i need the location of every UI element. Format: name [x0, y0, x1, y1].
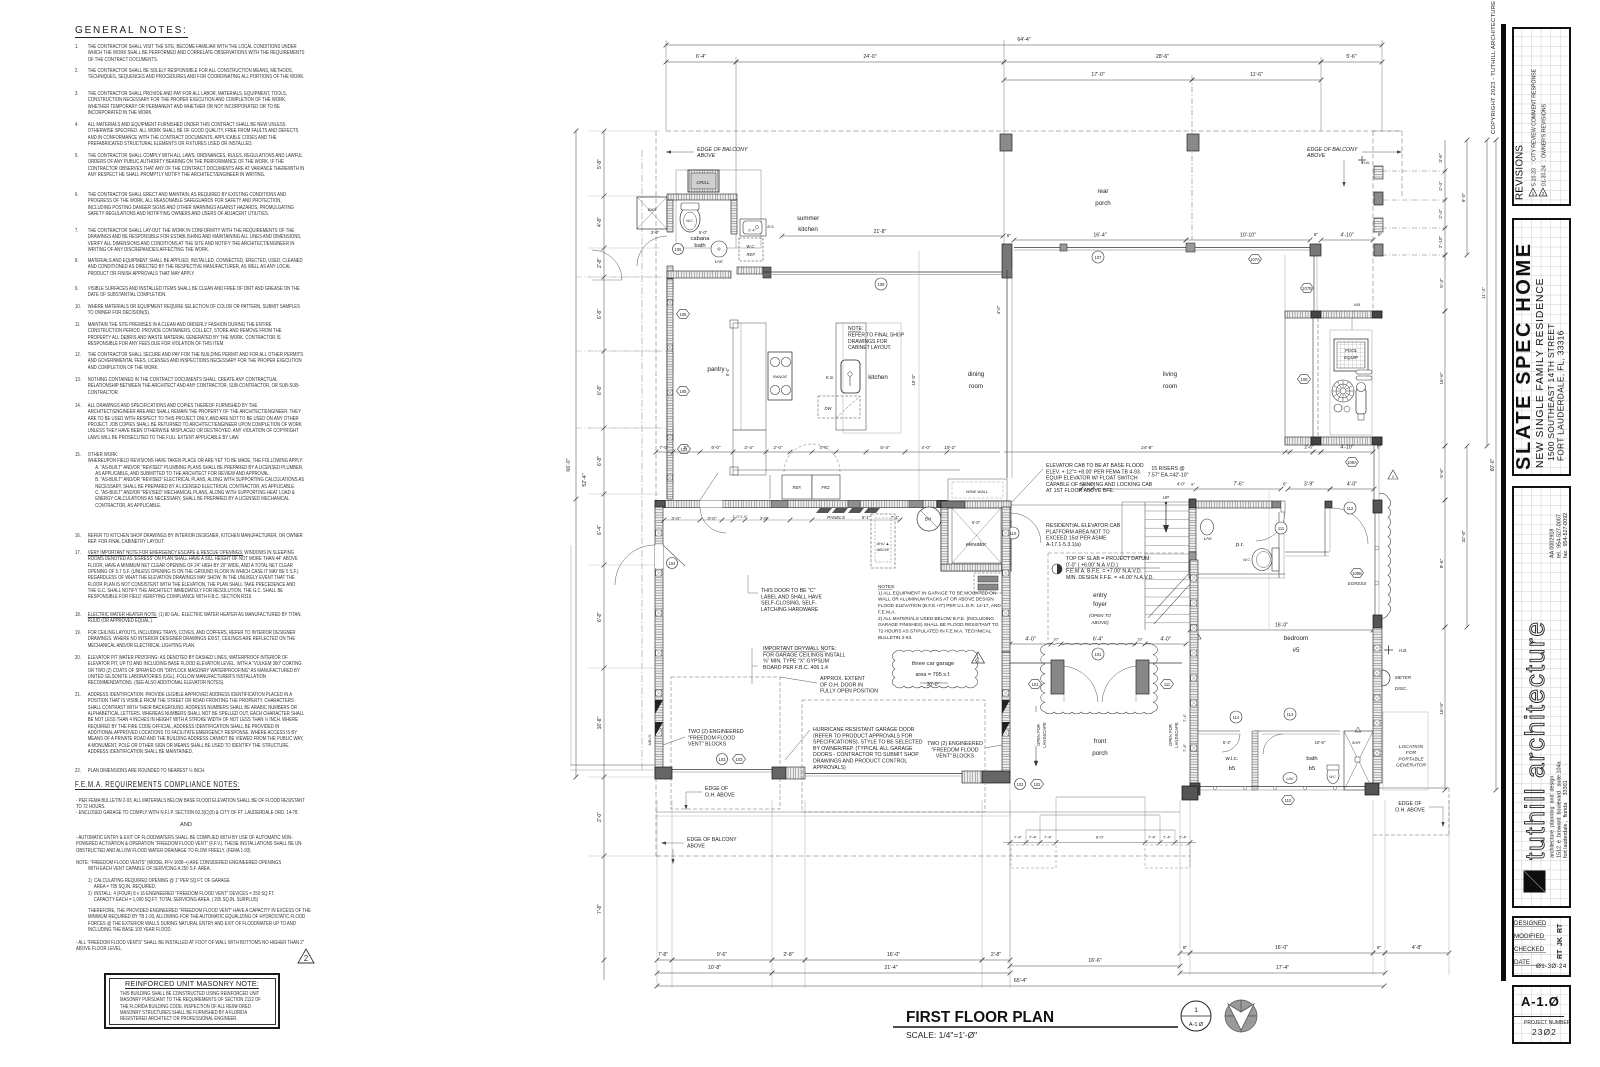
svg-text:LATCHING HARDWARE: LATCHING HARDWARE — [761, 607, 819, 613]
svg-text:DRAWINGS FOR: DRAWINGS FOR — [848, 339, 888, 345]
svg-text:AHU ▲: AHU ▲ — [876, 542, 890, 546]
svg-text:2'-8": 2'-8" — [597, 258, 603, 268]
svg-text:GENERATOR: GENERATOR — [1396, 763, 1426, 769]
svg-text:10'-8": 10'-8" — [708, 965, 721, 971]
svg-text:THIS DOOR TO BE "C": THIS DOOR TO BE "C" — [761, 588, 816, 594]
svg-text:BULLETIN 2-93.: BULLETIN 2-93. — [878, 635, 912, 640]
svg-text:tuthill architecture: tuthill architecture — [1520, 620, 1550, 860]
svg-text:METER: METER — [1395, 675, 1412, 680]
svg-text:16'-0": 16'-0" — [1275, 945, 1288, 951]
svg-text:⅝" MIN. TYPE "X" GYPSUM: ⅝" MIN. TYPE "X" GYPSUM — [763, 659, 829, 665]
svg-text:2'-4": 2'-4" — [1438, 209, 1444, 219]
svg-text:DRAWINGS AND PRODUCT CONTROL: DRAWINGS AND PRODUCT CONTROL — [813, 759, 907, 765]
svg-text:TWO (2) ENGINEERED: TWO (2) ENGINEERED — [927, 741, 983, 747]
svg-text:SCALE: 1/4"=1'-Ø": SCALE: 1/4"=1'-Ø" — [906, 1030, 977, 1040]
svg-text:BAR: BAR — [648, 207, 656, 212]
svg-text:11'-4": 11'-4" — [1481, 287, 1487, 299]
svg-text:6'-8": 6'-8" — [597, 309, 603, 319]
svg-text:EQUIP ELEVATOR W/ FLOAT SWITCH: EQUIP ELEVATOR W/ FLOAT SWITCH — [1046, 476, 1138, 482]
svg-text:7'-4": 7'-4" — [1014, 835, 1023, 840]
svg-text:5'-3": 5'-3" — [1439, 278, 1445, 288]
svg-text:FLOOD ELEVATION (B.F.E.+0") PE: FLOOD ELEVATION (B.F.E.+0") PER U.L.D.R.… — [878, 603, 1001, 608]
svg-text:109A: 109A — [1347, 460, 1357, 465]
svg-text:5'-2": 5'-2" — [1223, 740, 1232, 745]
svg-text:room: room — [969, 383, 983, 390]
svg-text:10'-10": 10'-10" — [1240, 233, 1256, 239]
svg-text:EDGE OF BALCONY: EDGE OF BALCONY — [697, 147, 748, 153]
svg-text:UP: UP — [1163, 495, 1169, 500]
svg-text:OPEN FOR: OPEN FOR — [1036, 724, 1041, 746]
svg-text:ELEVATOR CAB TO BE AT BASE FLO: ELEVATOR CAB TO BE AT BASE FLOOD — [1046, 463, 1144, 469]
svg-text:W.C.: W.C. — [686, 219, 694, 223]
svg-text:8": 8" — [684, 445, 689, 450]
svg-text:F.E.M.A. B.F.E. = +7.00' N.A.: F.E.M.A. B.F.E. = +7.00' N.A.V.D. — [1066, 569, 1142, 575]
svg-text:8": 8" — [1378, 232, 1383, 237]
svg-text:A-1.Ø: A-1.Ø — [1521, 994, 1560, 1009]
svg-text:SPECIFICATIONS). STYLE TO BE S: SPECIFICATIONS). STYLE TO BE SELECTED — [813, 740, 923, 746]
svg-text:23Ø2: 23Ø2 — [1532, 1027, 1557, 1037]
svg-text:2'-8": 2'-8" — [991, 952, 1001, 958]
svg-text:REF.: REF. — [793, 485, 802, 490]
svg-text:108: 108 — [1301, 377, 1309, 382]
svg-text:w.i.c.: w.i.c. — [1225, 756, 1239, 762]
svg-text:SELF-CLOSING, SELF-: SELF-CLOSING, SELF- — [761, 601, 817, 607]
svg-text:4'-0": 4'-0" — [996, 305, 1001, 314]
svg-text:BOARD PER F.B.C. 406.1.4: BOARD PER F.B.C. 406.1.4 — [763, 665, 828, 671]
svg-text:dining: dining — [968, 371, 985, 378]
svg-text:4'-0": 4'-0" — [921, 445, 931, 450]
svg-text:living: living — [1163, 371, 1178, 378]
svg-text:5'-6": 5'-6" — [1346, 54, 1356, 60]
svg-text:ABOVE: ABOVE — [875, 548, 890, 552]
svg-text:bedroom: bedroom — [1284, 635, 1308, 642]
svg-text:HURRICANE RESISTANT GARAGE DOO: HURRICANE RESISTANT GARAGE DOOR — [813, 727, 915, 733]
svg-text:52'-4": 52'-4" — [582, 473, 588, 486]
svg-text:2'-10": 2'-10" — [1438, 236, 1444, 249]
svg-text:101: 101 — [1032, 682, 1040, 687]
svg-text:b5: b5 — [1309, 766, 1315, 772]
svg-text:LABEL AND SHALL HAVE: LABEL AND SHALL HAVE — [761, 594, 822, 600]
svg-text:summer: summer — [797, 215, 819, 222]
svg-text:CAPABLE OF SENDING AND LOCKING: CAPABLE OF SENDING AND LOCKING CAB — [1046, 482, 1153, 488]
svg-text:LAV.: LAV. — [1204, 536, 1213, 541]
svg-text:APPROX. EXTENT: APPROX. EXTENT — [820, 676, 866, 682]
svg-text:2'-0": 2'-0" — [597, 812, 603, 822]
svg-text:4'-8": 4'-8" — [597, 217, 603, 227]
svg-text:"FREEDOM FLOOD: "FREEDOM FLOOD — [688, 735, 735, 741]
svg-text:EGRESS: EGRESS — [1348, 581, 1366, 586]
svg-text:2'-0": 2'-0" — [773, 445, 783, 450]
svg-text:5'-6": 5'-6" — [1439, 468, 1445, 478]
svg-text:VENT" BLOCKS: VENT" BLOCKS — [688, 742, 727, 748]
svg-text:ABOVE: ABOVE — [687, 843, 705, 849]
svg-text:cabana: cabana — [690, 236, 710, 242]
svg-text:17'-0": 17'-0" — [1091, 72, 1104, 78]
svg-text:8": 8" — [1314, 232, 1319, 237]
svg-text:b5: b5 — [1229, 766, 1235, 772]
svg-text:AT 1ST FLOOR ABOVE BFE.: AT 1ST FLOOR ABOVE BFE. — [1046, 488, 1114, 494]
svg-text:2: 2 — [304, 954, 309, 963]
svg-text:W.C.: W.C. — [1243, 558, 1251, 562]
svg-text:2: 2 — [977, 658, 980, 664]
svg-text:WINE WALL: WINE WALL — [966, 489, 988, 494]
svg-text:GRILL: GRILL — [696, 180, 710, 185]
svg-text:1500 SOUTHEAST 14TH STREET: 1500 SOUTHEAST 14TH STREET — [1547, 323, 1556, 461]
svg-text:W.C.: W.C. — [1329, 775, 1336, 779]
svg-text:72 HOURS AS STIPULATED IN F.E.: 72 HOURS AS STIPULATED IN F.E.M.A. TECHN… — [878, 628, 992, 633]
svg-text:NOTES:: NOTES: — [878, 584, 895, 589]
svg-text:pantry: pantry — [707, 366, 725, 373]
svg-text:#5: #5 — [1293, 647, 1300, 654]
svg-text:21'-8": 21'-8" — [874, 229, 887, 235]
svg-text:21'-4": 21'-4" — [884, 965, 897, 971]
svg-text:DW: DW — [825, 406, 833, 411]
svg-text:111: 111 — [1278, 526, 1285, 531]
svg-text:porch: porch — [1095, 200, 1111, 207]
svg-text:LAV.: LAV. — [1286, 777, 1293, 781]
svg-text:107A: 107A — [1250, 257, 1260, 262]
svg-text:bath: bath — [1306, 756, 1317, 762]
svg-text:K.S.: K.S. — [826, 375, 834, 380]
svg-text:5'-4": 5'-4" — [725, 367, 730, 376]
svg-text:10'-2": 10'-2" — [944, 445, 956, 450]
svg-text:(REFER TO PRODUCT APPROVALS FO: (REFER TO PRODUCT APPROVALS FOR — [813, 733, 913, 739]
svg-text:9'-6": 9'-6" — [1439, 558, 1445, 568]
svg-text:7'-0": 7'-0" — [659, 445, 669, 450]
svg-text:110: 110 — [1010, 531, 1017, 536]
svg-text:foyer: foyer — [1093, 601, 1107, 608]
svg-text:front: front — [1094, 738, 1107, 745]
svg-text:8": 8" — [1377, 945, 1382, 951]
svg-text:LOCATION: LOCATION — [1399, 744, 1424, 750]
svg-text:FULLY OPEN POSITION: FULLY OPEN POSITION — [820, 689, 878, 695]
svg-text:LANDSCAPE: LANDSCAPE — [1042, 722, 1047, 748]
svg-text:APPROVALS): APPROVALS) — [813, 765, 846, 771]
svg-text:15 RISERS @: 15 RISERS @ — [1151, 466, 1184, 472]
svg-text:111: 111 — [1164, 682, 1171, 687]
svg-text:EQUIP: EQUIP — [1344, 355, 1358, 360]
svg-text:VENT" BLOCKS: VENT" BLOCKS — [936, 754, 975, 760]
svg-text:6'-4": 6'-4" — [1093, 637, 1103, 643]
svg-text:PANELS: PANELS — [827, 515, 846, 520]
svg-text:7'-4": 7'-4" — [1182, 743, 1187, 752]
svg-text:10'-0": 10'-0" — [911, 374, 916, 386]
svg-text:TOP OF SLAB = PROJECT DATUM:: TOP OF SLAB = PROJECT DATUM: — [1066, 556, 1151, 562]
svg-text:65'-4": 65'-4" — [1014, 978, 1027, 984]
svg-text:1: 1 — [1194, 1007, 1198, 1014]
svg-text:107B: 107B — [1302, 286, 1312, 291]
svg-text:A/B: A/B — [1354, 303, 1361, 307]
svg-text:ABOVE: ABOVE — [696, 153, 716, 159]
svg-text:16'-4": 16'-4" — [1093, 233, 1106, 239]
svg-text:2'-4": 2'-4" — [744, 445, 754, 450]
svg-text:TWO (2) ENGINEERED: TWO (2) ENGINEERED — [688, 729, 744, 735]
svg-text:5'-8": 5'-8" — [597, 159, 603, 169]
svg-text:28'-6": 28'-6" — [1156, 54, 1169, 60]
svg-text:O.H. ABOVE: O.H. ABOVE — [705, 792, 735, 798]
svg-text:rear: rear — [1097, 188, 1108, 195]
svg-text:107: 107 — [1095, 255, 1103, 260]
svg-text:REVISIONS: REVISIONS — [1515, 145, 1526, 200]
svg-text:4'-10": 4'-10" — [1340, 233, 1353, 239]
svg-text:JK: JK — [1557, 937, 1564, 946]
svg-text:108: 108 — [878, 282, 886, 287]
svg-text:W.C.: W.C. — [746, 244, 755, 249]
svg-text:A-17.1-5.3.1(a): A-17.1-5.3.1(a) — [1046, 542, 1081, 548]
svg-text:RT: RT — [1557, 923, 1564, 933]
svg-text:7'-8": 7'-8" — [597, 904, 603, 914]
svg-text:6'-0": 6'-0" — [711, 445, 721, 450]
svg-text:H.B.: H.B. — [1399, 648, 1407, 653]
svg-text:Ø1-3Ø-24: Ø1-3Ø-24 — [1536, 963, 1567, 970]
svg-text:16'-0": 16'-0" — [1439, 702, 1445, 715]
svg-text:2: 2 — [1542, 191, 1545, 197]
svg-text:24'-0": 24'-0" — [863, 54, 876, 60]
svg-text:ABOVE: ABOVE — [1306, 153, 1326, 159]
svg-text:1: 1 — [1532, 191, 1535, 197]
svg-text:4'-0": 4'-0" — [1347, 482, 1357, 488]
svg-text:114: 114 — [1233, 715, 1240, 720]
svg-text:2'-6": 2'-6" — [1304, 445, 1314, 450]
svg-text:FIRST FLOOR PLAN: FIRST FLOOR PLAN — [906, 1009, 1054, 1026]
svg-text:5'-0": 5'-0" — [699, 230, 708, 235]
svg-text:H.B.: H.B. — [1362, 160, 1370, 165]
svg-text:6'-4": 6'-4" — [597, 525, 603, 535]
svg-text:PORTABLE: PORTABLE — [1398, 756, 1424, 762]
svg-text:6": 6" — [1283, 482, 1287, 487]
svg-text:3'-9": 3'-9" — [1304, 482, 1314, 488]
svg-text:8": 8" — [1007, 233, 1012, 238]
svg-text:3'-0": 3'-0" — [671, 516, 681, 521]
svg-text:66'-0": 66'-0" — [566, 458, 572, 471]
svg-text:architecture planning and d: architecture planning and design — [1550, 776, 1556, 858]
svg-text:POOL: POOL — [1345, 348, 1358, 353]
svg-text:fort lauderdale , florida: fort lauderdale , florida 33301 — [1563, 780, 1569, 858]
svg-text:BH: BH — [925, 517, 932, 522]
svg-text:10": 10" — [1053, 638, 1059, 642]
svg-text:7.57" EA.=42'-10": 7.57" EA.=42'-10" — [1148, 472, 1189, 478]
svg-text:MIN. DESIGN F.F.E. = +6.00' N: MIN. DESIGN F.F.E. = +6.00' N.A.V.D. — [1066, 575, 1154, 581]
svg-text:60'-0": 60'-0" — [1490, 458, 1496, 471]
svg-text:01-30-24 : OWNER'S REVISIONS: 01-30-24 : OWNER'S REVISIONS — [1542, 103, 1548, 186]
svg-text:7'-6": 7'-6" — [1233, 482, 1243, 488]
svg-text:REFER TO FINAL SHOP: REFER TO FINAL SHOP — [848, 332, 905, 338]
svg-text:RANGE: RANGE — [773, 374, 788, 379]
svg-text:6'-8": 6'-8" — [597, 385, 603, 395]
svg-text:2'-8": 2'-8" — [783, 952, 793, 958]
svg-text:DATE: DATE — [1514, 959, 1530, 966]
svg-text:CHECKED: CHECKED — [1514, 946, 1545, 953]
svg-text:SHR: SHR — [1352, 740, 1361, 745]
svg-text:three car garage: three car garage — [912, 661, 955, 667]
svg-text:0'-0" ( +6.00' N.A.V.D.): 0'-0" ( +6.00' N.A.V.D.) — [1066, 562, 1118, 568]
svg-text:10": 10" — [1137, 638, 1143, 642]
svg-text:FORT LAUDERDALE, FL, 33316: FORT LAUDERDALE, FL, 33316 — [1557, 330, 1566, 461]
svg-text:"FREEDOM FLOOD: "FREEDOM FLOOD — [931, 747, 978, 753]
svg-text:8'-0": 8'-0" — [1096, 835, 1105, 840]
svg-text:EDGE OF: EDGE OF — [1398, 801, 1421, 807]
svg-text:RT: RT — [1557, 949, 1564, 959]
svg-text:MODIFIED: MODIFIED — [1514, 933, 1545, 940]
svg-text:5'-4": 5'-4" — [880, 445, 890, 450]
svg-text:6'-1": 6'-1" — [862, 515, 871, 520]
svg-text:entry: entry — [1093, 592, 1108, 599]
svg-text:16'-8": 16'-8" — [597, 716, 603, 729]
svg-text:3'-6": 3'-6" — [651, 230, 660, 235]
svg-text:102: 102 — [1017, 782, 1025, 787]
svg-text:p.r.: p.r. — [1236, 542, 1244, 548]
svg-text:7'-8": 7'-8" — [658, 952, 668, 958]
svg-text:7'-4": 7'-4" — [1029, 835, 1038, 840]
svg-text:4'-10": 4'-10" — [1340, 445, 1353, 451]
svg-text:LAV.: LAV. — [715, 259, 724, 264]
svg-text:5-10-23 : CITY REVIEW COMMEN: 5-10-23 : CITY REVIEW COMMENT RESPONSE — [1532, 68, 1538, 186]
svg-text:6'-8": 6'-8" — [597, 456, 603, 466]
svg-text:9'-0": 9'-0" — [1461, 192, 1467, 202]
svg-text:2'-4": 2'-4" — [748, 229, 756, 233]
svg-text:9'-6": 9'-6" — [717, 952, 727, 958]
svg-text:103: 103 — [719, 757, 727, 762]
svg-text:6'-8": 6'-8" — [597, 612, 603, 622]
svg-text:BY OWNER/REP. (TYPICAL ALL GAR: BY OWNER/REP. (TYPICAL ALL GARAGE — [813, 746, 913, 752]
svg-text:kitchen: kitchen — [868, 374, 888, 381]
svg-text:104: 104 — [669, 561, 677, 566]
svg-text:8": 8" — [1183, 945, 1188, 951]
svg-text:A-1.Ø: A-1.Ø — [1189, 1022, 1204, 1028]
svg-text:DESIGNED: DESIGNED — [1514, 920, 1547, 927]
svg-text:LANDSCAPE: LANDSCAPE — [1174, 722, 1179, 748]
svg-text:DISC.: DISC. — [1395, 686, 1407, 691]
svg-text:B.S.: B.S. — [767, 225, 774, 229]
svg-text:11'-6": 11'-6" — [1250, 72, 1263, 78]
svg-text:A/B=½: A/B=½ — [648, 735, 652, 746]
svg-text:7'-4": 7'-4" — [1182, 713, 1187, 722]
svg-text:FRZ.: FRZ. — [821, 485, 830, 490]
svg-text:5'-0": 5'-0" — [972, 520, 981, 525]
svg-text:F.E.M.A.: F.E.M.A. — [878, 609, 896, 614]
svg-text:kitchen: kitchen — [798, 226, 818, 233]
svg-text:ABOVE): ABOVE) — [1090, 620, 1109, 625]
svg-text:2) ALL MATERIALS USED BELOW B: 2) ALL MATERIALS USED BELOW B.F.E. (INCL… — [878, 616, 994, 621]
svg-text:3'-0": 3'-0" — [707, 516, 717, 521]
svg-text:PLATFORM AREA NOT TO: PLATFORM AREA NOT TO — [1046, 529, 1110, 535]
svg-text:REF.: REF. — [747, 252, 756, 257]
svg-text:area = 795 s.f.: area = 795 s.f. — [915, 672, 951, 678]
svg-text:RESIDENTIAL ELEVATOR CAB: RESIDENTIAL ELEVATOR CAB — [1046, 523, 1121, 529]
svg-text:24'-8": 24'-8" — [1141, 445, 1153, 450]
svg-text:4'-0": 4'-0" — [1160, 637, 1170, 643]
svg-text:EDGE OF BALCONY: EDGE OF BALCONY — [687, 837, 737, 843]
svg-text:DOORS - CONTRACTOR TO SUBMIT: DOORS - CONTRACTOR TO SUBMIT SHOP — [813, 752, 919, 758]
svg-text:AA 0002918: AA 0002918 — [1550, 529, 1556, 558]
svg-text:4'-0": 4'-0" — [1025, 637, 1035, 643]
svg-text:105: 105 — [675, 247, 683, 252]
svg-text:64'-4": 64'-4" — [1017, 37, 1030, 43]
svg-text:ELEV. + 12"= +8.00' PER FEMA T: ELEV. + 12"= +8.00' PER FEMA TB 4-93. — [1046, 469, 1141, 475]
svg-text:GARAGE FINISHES) SHALL BE FLOO: GARAGE FINISHES) SHALL BE FLOOD RESISTAN… — [878, 622, 999, 627]
svg-text:EDGE OF BALCONY: EDGE OF BALCONY — [1307, 147, 1358, 153]
svg-text:EDGE OF: EDGE OF — [705, 786, 728, 792]
svg-text:106: 106 — [680, 312, 688, 317]
svg-text:110: 110 — [1285, 798, 1292, 803]
svg-text:4'-0": 4'-0" — [1177, 482, 1186, 487]
svg-text:O.H. ABOVE: O.H. ABOVE — [1395, 807, 1425, 813]
svg-text:CABINET LAYOUT.: CABINET LAYOUT. — [848, 345, 891, 351]
svg-text:PROJECT NUMBER: PROJECT NUMBER — [1524, 1020, 1571, 1026]
svg-text:113: 113 — [1287, 712, 1294, 717]
svg-text:105: 105 — [680, 389, 688, 394]
svg-text:32'-8": 32'-8" — [1461, 530, 1467, 543]
svg-text:SLATE SPEC HOME: SLATE SPEC HOME — [1513, 241, 1535, 470]
svg-text:7'-4": 7'-4" — [1044, 835, 1053, 840]
svg-text:OF O.H. DOOR IN: OF O.H. DOOR IN — [820, 682, 863, 688]
svg-text:2'-4": 2'-4" — [1438, 181, 1444, 191]
svg-text:101: 101 — [1095, 652, 1103, 657]
svg-text:1512 e broward boulevard: 1512 e broward boulevard suite 104a — [1557, 762, 1563, 859]
svg-text:103: 103 — [736, 757, 744, 762]
svg-text:16'-0": 16'-0" — [1275, 623, 1288, 629]
svg-text:OPEN FOR: OPEN FOR — [1168, 724, 1173, 746]
svg-text:109B: 109B — [1352, 571, 1362, 576]
svg-text:FOR: FOR — [1406, 750, 1417, 756]
svg-text:elevator: elevator — [966, 542, 987, 548]
svg-text:WALL OR ALUMINUM RACKS AT OR A: WALL OR ALUMINUM RACKS AT OR ABOVE DESIG… — [878, 597, 994, 602]
svg-text:3'-6": 3'-6" — [1438, 153, 1444, 163]
svg-text:fax. 954-527-0092: fax. 954-527-0092 — [1563, 513, 1569, 558]
svg-text:(OPEN TO: (OPEN TO — [1089, 613, 1112, 618]
svg-text:tel. 954-527-0007: tel. 954-527-0007 — [1557, 514, 1563, 558]
svg-text:10'-5": 10'-5" — [1315, 740, 1326, 745]
svg-text:16'-6": 16'-6" — [1088, 958, 1101, 964]
svg-text:bath: bath — [694, 243, 705, 249]
svg-text:6'-4": 6'-4" — [696, 54, 706, 60]
svg-text:16'-6": 16'-6" — [1439, 372, 1445, 385]
svg-text:porch: porch — [1092, 750, 1108, 757]
svg-text:112: 112 — [1347, 506, 1354, 511]
svg-text:102: 102 — [1034, 782, 1042, 787]
svg-text:2: 2 — [1392, 474, 1395, 479]
svg-text:room: room — [1163, 383, 1177, 390]
svg-text:4'-5": 4'-5" — [819, 445, 829, 450]
svg-text:1) ALL EQUIPMENT IN GARAGE TO: 1) ALL EQUIPMENT IN GARAGE TO BE MOUNTED… — [878, 590, 996, 595]
svg-text:4'-8": 4'-8" — [1412, 945, 1422, 951]
svg-text:7'-4": 7'-4" — [1179, 835, 1188, 840]
svg-text:7'-4": 7'-4" — [1163, 835, 1172, 840]
svg-text:8": 8" — [1191, 483, 1195, 487]
svg-text:FOR GARAGE CEILINGS INSTALL: FOR GARAGE CEILINGS INSTALL — [763, 652, 845, 658]
svg-text:EXCEED 15sf PER ASME: EXCEED 15sf PER ASME — [1046, 536, 1107, 542]
svg-text:7'-4": 7'-4" — [1148, 835, 1157, 840]
svg-text:NEW SINGLE FAMILY RESIDENCE: NEW SINGLE FAMILY RESIDENCE — [1535, 278, 1546, 468]
svg-text:16'-0": 16'-0" — [887, 952, 900, 958]
svg-text:17'-4": 17'-4" — [1276, 965, 1289, 971]
